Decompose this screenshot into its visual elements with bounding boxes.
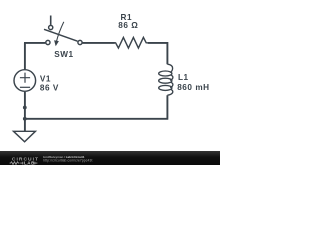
wire from V1 top to switch left terminal [24,43,45,70]
CircuitLab logo capacitor lead right [35,161,38,164]
switch SW1 left terminal circle [46,40,50,44]
footer bar [0,151,220,166]
inductor L1 loop 1-2 connector [170,75,173,81]
inductor L1 coil entry hook [167,64,172,72]
switch SW1 actuation arrow [57,22,64,41]
wire from resistor R1 to inductor L1 top [148,42,168,64]
V1 minus sign [20,86,30,88]
inductor L1 loop 3 [159,85,172,90]
switch SW1 arrowhead [54,40,59,46]
inductor L1 loop 2-3 connector [170,82,173,88]
inductor L1 loop 2 [159,78,172,83]
V1 plus sign [20,73,30,83]
resistor R1 zigzag body [114,37,147,48]
CircuitLab logo capacitor lead [20,161,23,164]
svg-text:http://circuitlab.com/c/e7ppc4: http://circuitlab.com/c/e7ppc43t [43,158,92,162]
switch SW1 top stub wire [50,16,52,25]
voltage source V1 circle [14,70,36,92]
svg-text:LAB: LAB [24,160,35,165]
CircuitLab logo resistor zigzag [10,161,20,164]
switch SW1 right terminal circle [78,40,82,44]
wire from V1 bottom to ground [24,92,26,131]
svg-text:L1: L1 [178,73,189,82]
node: V1 negative terminal junction dot [23,106,27,110]
inductor L1 loop 1 [159,71,172,76]
wire from inductor L1 bottom to bottom rail [24,95,168,119]
ground symbol [14,131,36,142]
svg-text:SW1: SW1 [54,50,73,59]
svg-text:86 Ω: 86 Ω [118,21,138,30]
svg-text:86 V: 86 V [40,83,59,92]
svg-text:V1: V1 [40,74,51,83]
switch SW1 blade [44,29,78,41]
svg-text:860 mH: 860 mH [177,83,209,92]
node: ground rail junction dot [23,117,27,121]
wire from switch right terminal to resistor R1 [83,42,115,44]
inductor L1 coil exit hook [167,89,172,95]
switch SW1 top terminal circle [49,25,53,29]
